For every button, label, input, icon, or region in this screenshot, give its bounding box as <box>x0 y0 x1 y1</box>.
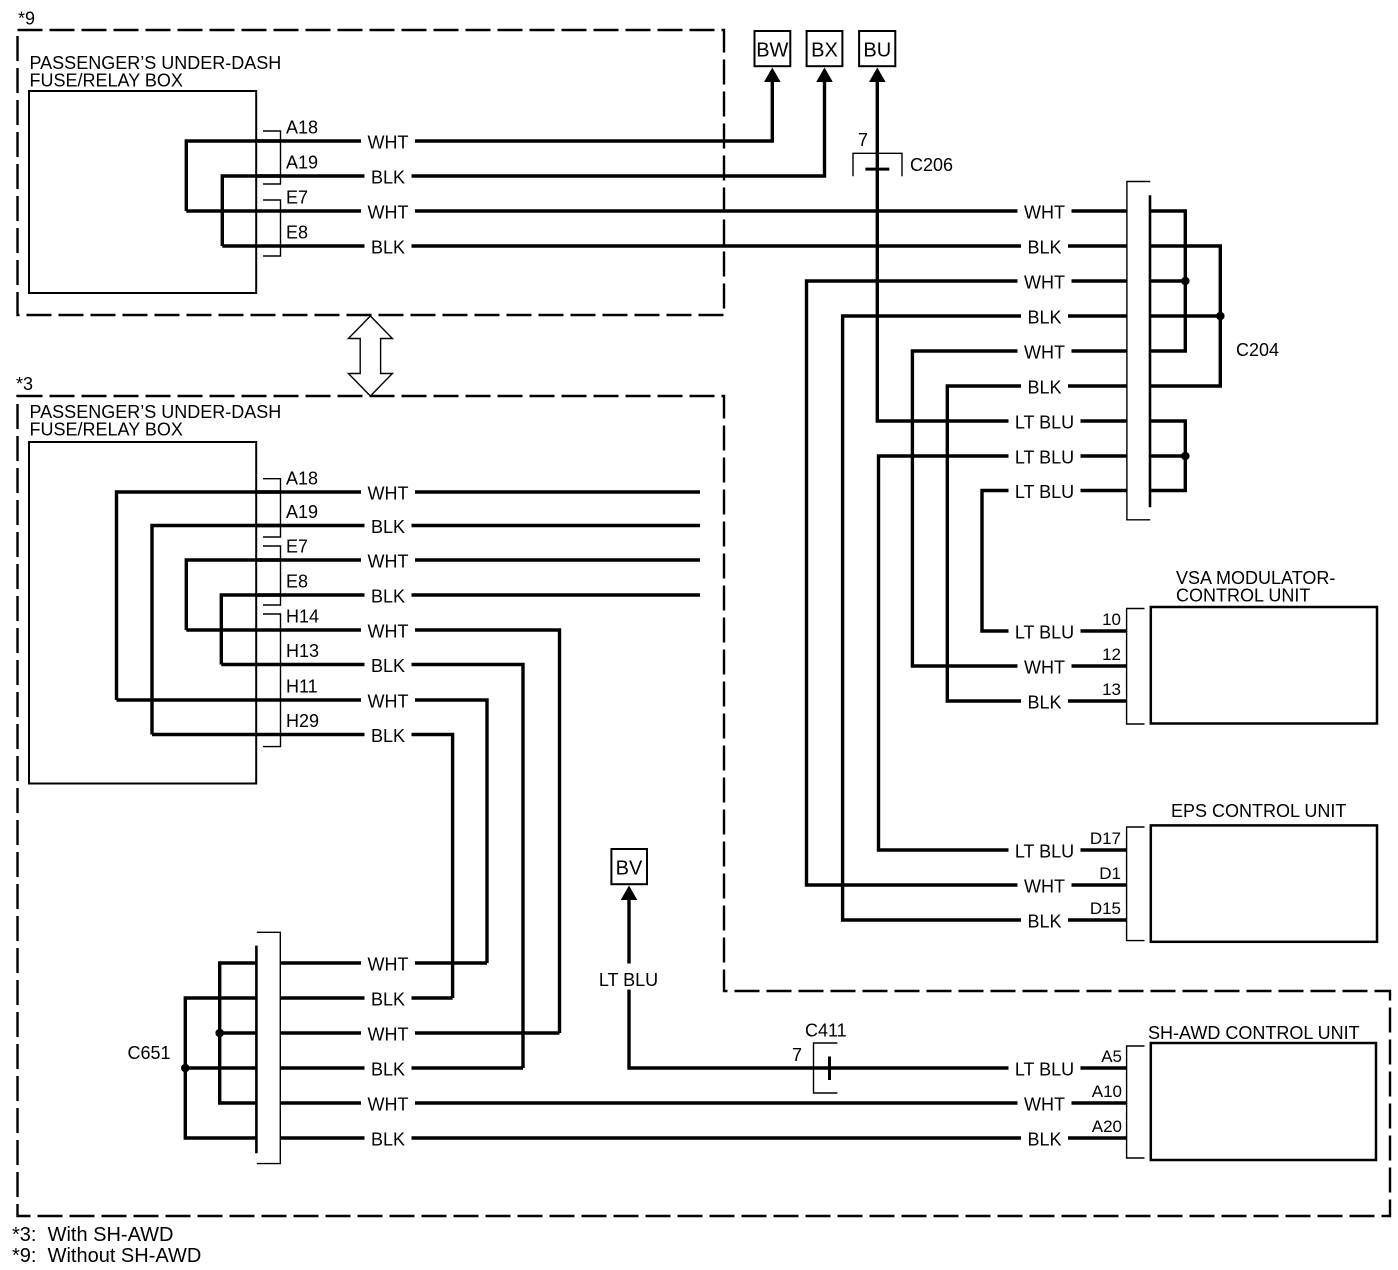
wire C204 row6 BLK to VSA 13 <box>947 386 1127 701</box>
label LT BLU SH-AWD A5 <box>1009 1058 1081 1078</box>
svg-text:BLK: BLK <box>371 237 405 257</box>
connector C651 outline <box>257 932 281 1163</box>
connector C204 bar <box>1149 195 1152 507</box>
wire A19 BLK to BX <box>256 80 825 176</box>
svg-text:WHT: WHT <box>368 954 409 974</box>
label WHT VSA 12 <box>1018 656 1072 676</box>
svg-text:CONTROL UNIT: CONTROL UNIT <box>1176 585 1310 605</box>
EPS control unit box <box>1151 825 1377 941</box>
svg-text:WHT: WHT <box>368 691 409 711</box>
label BLK A19 (*3) <box>365 516 412 536</box>
svg-text:LT BLU: LT BLU <box>599 970 658 990</box>
svg-text:7: 7 <box>792 1045 802 1065</box>
svg-text:BLK: BLK <box>371 1129 405 1149</box>
wire C204 row9 LT BLU to VSA 10 <box>982 491 1127 632</box>
connector bracket H14/H13/H11/H29 (*3) <box>263 614 281 747</box>
label WHT A18 (*3) <box>361 482 415 502</box>
svg-text:*3: With SH-AWD: *3: With SH-AWD <box>12 1224 174 1246</box>
label WHT EPS D1 <box>1018 875 1072 895</box>
internal jumper A18-E7 (*9) <box>186 141 280 211</box>
label LT BLU C204 r7 <box>1009 411 1081 431</box>
label WHT H14 <box>361 620 415 640</box>
wire E7 WHT to C204 pin <box>186 209 1127 212</box>
svg-text:A19: A19 <box>286 153 318 173</box>
svg-text:*9: Without SH-AWD: *9: Without SH-AWD <box>12 1245 201 1267</box>
wire H29 BLK to C651 <box>152 735 453 999</box>
label BLK C204 r6 <box>1021 376 1068 396</box>
svg-text:LT BLU: LT BLU <box>1015 1059 1074 1079</box>
label BLK C204 r4 <box>1021 306 1068 326</box>
svg-text:H11: H11 <box>286 677 318 697</box>
svg-text:BLK: BLK <box>371 586 405 606</box>
label BLK C204 r2 <box>1021 236 1068 256</box>
fuse/relay box *3 <box>29 442 256 784</box>
svg-text:E7: E7 <box>286 188 308 208</box>
C204 right jumper rows2-4-6 BLK <box>1150 246 1220 386</box>
label LT BLU C204 r9 <box>1009 481 1081 501</box>
off-page connector BV <box>611 849 647 884</box>
junction dot C651 WHT <box>215 1029 224 1038</box>
svg-text:WHT: WHT <box>1024 1094 1065 1114</box>
C651 row3 WHT right <box>280 1031 559 1034</box>
svg-text:WHT: WHT <box>368 621 409 641</box>
internal jumper A19-H29 (*3) <box>152 526 281 735</box>
svg-text:WHT: WHT <box>368 202 409 222</box>
svg-text:WHT: WHT <box>368 483 409 503</box>
C651 row2 BLK right <box>280 996 452 999</box>
wire A18 WHT (*3) <box>256 490 700 493</box>
svg-text:LT BLU: LT BLU <box>1015 841 1074 861</box>
label BLK A19 (*9) <box>365 166 412 186</box>
svg-text:LT BLU: LT BLU <box>1015 482 1074 502</box>
svg-text:A19: A19 <box>286 502 318 522</box>
wire H13 BLK to C651 <box>221 665 523 1069</box>
fuse/relay box *9 <box>29 91 256 293</box>
svg-text:BLK: BLK <box>371 656 405 676</box>
label BLK H13 <box>365 655 412 675</box>
in-line connector C411 <box>814 1043 838 1093</box>
wire A18 WHT to BW <box>256 80 772 141</box>
wire E8 BLK (*3) <box>256 593 700 596</box>
C651 row4 BLK right <box>280 1066 523 1069</box>
svg-text:BLK: BLK <box>371 167 405 187</box>
dashed region *9 (without SH-AWD) <box>18 30 725 315</box>
label BLK VSA 13 <box>1021 691 1068 711</box>
svg-text:A5: A5 <box>1101 1047 1122 1066</box>
svg-text:*3: *3 <box>16 374 33 394</box>
svg-text:7: 7 <box>858 130 868 150</box>
internal jumper A19-E8 (*9) <box>222 176 280 246</box>
label LT BLU EPS D17 <box>1009 840 1081 860</box>
svg-text:10: 10 <box>1102 610 1121 629</box>
wire E8 BLK to C204 pin <box>222 244 1127 247</box>
svg-text:H13: H13 <box>286 641 319 661</box>
svg-text:BW: BW <box>756 40 788 62</box>
junction dot row8 <box>1181 452 1190 461</box>
label WHT H11 <box>361 690 415 710</box>
svg-text:FUSE/RELAY BOX: FUSE/RELAY BOX <box>30 419 183 439</box>
svg-text:SH-AWD CONTROL UNIT: SH-AWD CONTROL UNIT <box>1148 1023 1360 1043</box>
svg-text:FUSE/RELAY BOX: FUSE/RELAY BOX <box>30 70 183 90</box>
label WHT A18 (*9) <box>361 131 415 151</box>
C651 left bus BLK rows2-4-6 <box>185 998 256 1138</box>
connector C651 bar <box>255 946 258 1154</box>
svg-text:BLK: BLK <box>1027 377 1061 397</box>
svg-text:C206: C206 <box>910 155 953 175</box>
off-page connector BX <box>807 31 843 66</box>
svg-text:D17: D17 <box>1090 829 1121 848</box>
svg-text:D1: D1 <box>1099 864 1121 883</box>
connector C204 outline <box>1127 182 1150 520</box>
label WHT E7 (*3) <box>361 550 415 570</box>
svg-text:E8: E8 <box>286 223 308 243</box>
svg-text:BLK: BLK <box>371 989 405 1009</box>
C204 right jumper rows1-3-5 WHT <box>1150 211 1185 351</box>
svg-text:BLK: BLK <box>1027 1129 1061 1149</box>
inter-box double arrow <box>348 316 392 396</box>
wire BV LT BLU to SH-AWD A5 <box>629 898 1127 1068</box>
label BLK E8 (*9) <box>365 236 412 256</box>
svg-text:A18: A18 <box>286 469 318 489</box>
svg-text:WHT: WHT <box>368 1024 409 1044</box>
label WHT C204 r1 <box>1018 201 1072 221</box>
svg-text:12: 12 <box>1102 645 1121 664</box>
wire E7 WHT (*3) <box>256 558 700 561</box>
svg-text:BLK: BLK <box>1027 911 1061 931</box>
label WHT C651 r3 <box>361 1023 415 1043</box>
svg-text:E7: E7 <box>286 537 308 557</box>
svg-text:BLK: BLK <box>371 517 405 537</box>
label BLK EPS D15 <box>1021 910 1068 930</box>
VSA connector bracket <box>1127 609 1145 725</box>
svg-text:BV: BV <box>616 858 643 880</box>
label BLK H29 <box>365 725 412 745</box>
SH-AWD connector bracket <box>1127 1046 1145 1158</box>
svg-text:BX: BX <box>811 40 838 62</box>
label BLK C651 r6 <box>365 1128 412 1148</box>
svg-text:A18: A18 <box>286 118 318 138</box>
off-page connector BW <box>755 31 791 66</box>
label WHT E7 (*9) <box>361 201 415 221</box>
C651 row6 BLK to SH-AWD A20 <box>280 1136 1126 1139</box>
svg-text:BLK: BLK <box>371 1059 405 1079</box>
svg-text:BLK: BLK <box>371 726 405 746</box>
svg-text:WHT: WHT <box>368 551 409 571</box>
label WHT C204 r5 <box>1018 341 1072 361</box>
label BLK SH-AWD A20 <box>1021 1128 1068 1148</box>
connector bracket E7/E8 (*3) <box>263 546 281 605</box>
svg-text:H29: H29 <box>286 711 319 731</box>
wire H14 WHT to C651 <box>186 630 559 1033</box>
wire C204 row5 WHT to VSA 12 <box>912 351 1127 666</box>
svg-text:WHT: WHT <box>1024 272 1065 292</box>
svg-text:D15: D15 <box>1090 899 1121 918</box>
svg-text:A10: A10 <box>1092 1082 1122 1101</box>
svg-text:BU: BU <box>863 40 891 62</box>
connector bracket A18/A19 (*9) <box>263 131 281 184</box>
junction dot row3 <box>1181 277 1190 286</box>
wire C204 row3 WHT to EPS D1 <box>807 281 1127 885</box>
svg-text:LT BLU: LT BLU <box>1015 622 1074 642</box>
svg-text:13: 13 <box>1102 680 1121 699</box>
C204 right jumper rows7-8-9 LT BLU <box>1150 421 1185 491</box>
junction dot row4 <box>1216 312 1225 321</box>
svg-text:C204: C204 <box>1236 340 1279 360</box>
internal jumper A18-H11 (*3) <box>117 492 281 700</box>
label WHT SH-AWD A10 <box>1018 1093 1072 1113</box>
EPS connector bracket <box>1127 827 1145 941</box>
label WHT C651 r1 <box>361 953 415 973</box>
label LT BLU VSA 10 <box>1009 621 1081 641</box>
wire C204 row8 LT BLU to EPS D17 <box>879 456 1127 850</box>
connector bracket A18/A19 (*3) <box>263 479 281 537</box>
svg-text:A20: A20 <box>1092 1117 1122 1136</box>
svg-text:E8: E8 <box>286 572 308 592</box>
junction dot C651 BLK <box>181 1064 190 1073</box>
svg-text:WHT: WHT <box>368 132 409 152</box>
C651 left bus WHT rows1-3-5 <box>220 963 257 1103</box>
label BLK C651 r4 <box>365 1058 412 1078</box>
internal jumper E8-H13 (*3) <box>221 595 280 665</box>
C651 row1 WHT right <box>280 961 487 964</box>
label WHT C204 r3 <box>1018 271 1072 291</box>
label BLK C651 r2 <box>365 988 412 1008</box>
svg-text:WHT: WHT <box>1024 876 1065 896</box>
wire H11 WHT to C651 <box>117 700 488 963</box>
label WHT C651 r5 <box>361 1093 415 1113</box>
wire BU LT BLU through C206 to C204 <box>877 80 1127 421</box>
svg-text:WHT: WHT <box>1024 202 1065 222</box>
svg-text:WHT: WHT <box>368 1094 409 1114</box>
SH-AWD control unit box <box>1151 1043 1376 1160</box>
svg-text:EPS CONTROL UNIT: EPS CONTROL UNIT <box>1171 801 1346 821</box>
svg-text:WHT: WHT <box>1024 342 1065 362</box>
wire A19 BLK (*3) <box>256 524 700 527</box>
svg-text:LT BLU: LT BLU <box>1015 447 1074 467</box>
connector bracket E7/E8 (*9) <box>263 200 281 256</box>
label LT BLU BV wire <box>620 964 638 990</box>
off-page connector BU <box>859 31 895 66</box>
svg-text:BLK: BLK <box>1027 237 1061 257</box>
internal jumper E7-H14 (*3) <box>186 560 280 630</box>
svg-text:H14: H14 <box>286 607 319 627</box>
svg-text:C651: C651 <box>128 1043 171 1063</box>
label LT BLU C204 r8 <box>1009 446 1081 466</box>
VSA modulator-control unit box <box>1151 607 1377 724</box>
svg-text:LT BLU: LT BLU <box>1015 412 1074 432</box>
dashed region *3 (with SH-AWD) <box>18 396 1391 1216</box>
svg-text:WHT: WHT <box>1024 657 1065 677</box>
svg-text:BLK: BLK <box>1027 692 1061 712</box>
in-line connector C206 <box>853 153 902 176</box>
svg-text:*9: *9 <box>18 9 35 29</box>
svg-text:C411: C411 <box>805 1021 847 1041</box>
C651 row5 WHT to SH-AWD A10 <box>280 1101 1126 1104</box>
svg-text:BLK: BLK <box>1027 307 1061 327</box>
label BLK E8 (*3) <box>365 585 412 605</box>
wire C204 row4 BLK to EPS D15 <box>843 316 1127 920</box>
